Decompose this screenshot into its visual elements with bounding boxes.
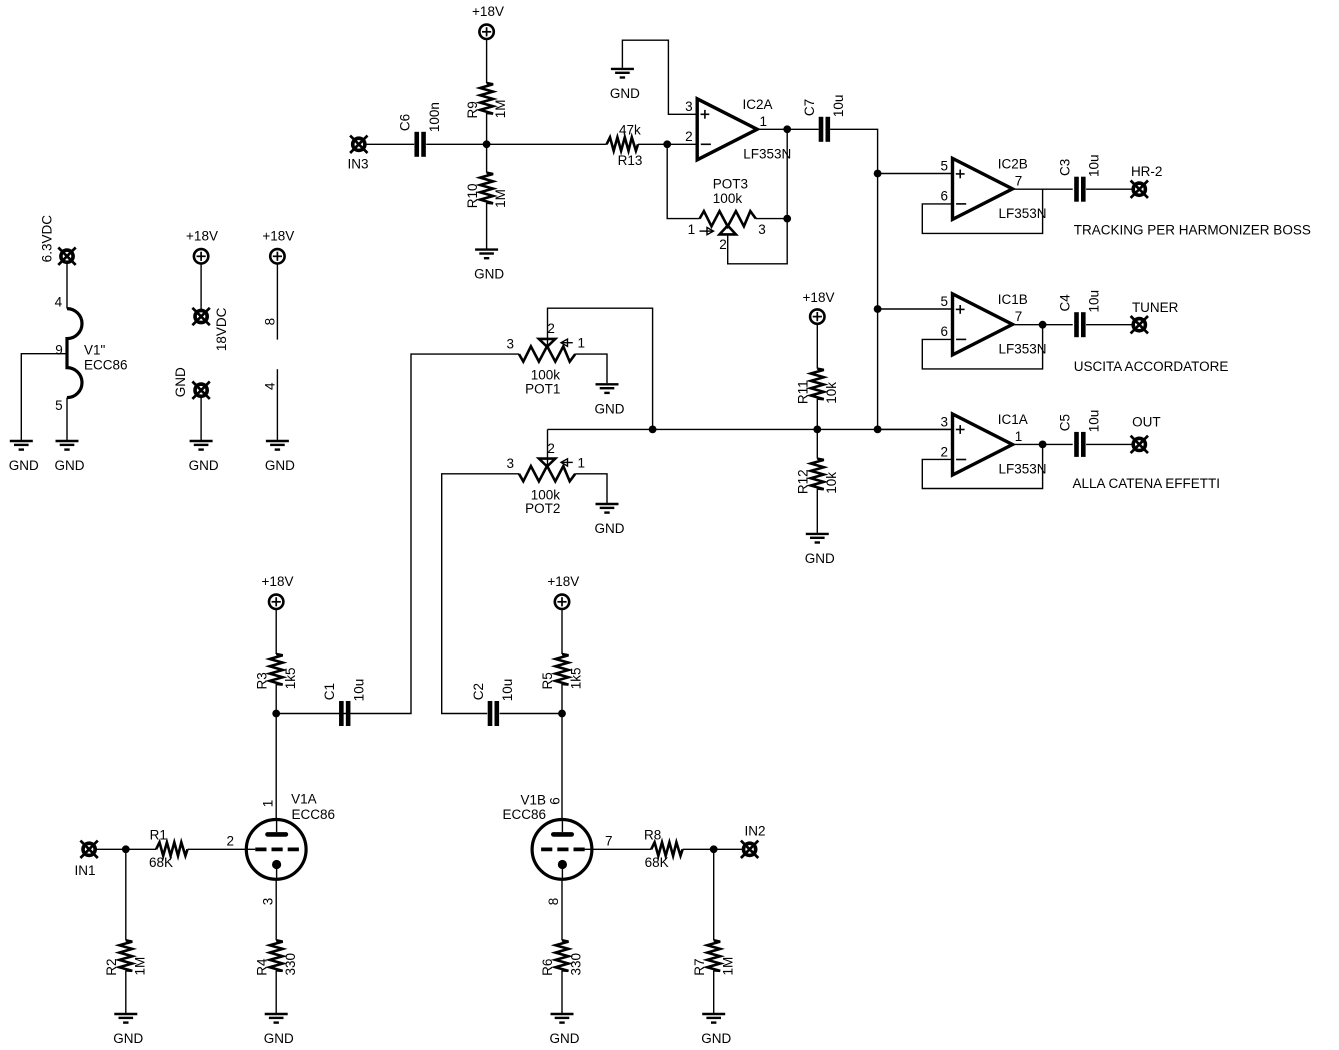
- svg-text:USCITA ACCORDATORE: USCITA ACCORDATORE: [1074, 359, 1229, 374]
- connector IN2: [741, 823, 766, 858]
- power +18V supply (op-amp pin 8 stub): [262, 228, 294, 263]
- pad 6.3VDC: [58, 248, 75, 265]
- svg-text:10u: 10u: [1087, 154, 1102, 177]
- svg-text:10u: 10u: [351, 679, 366, 702]
- wire V1B pin 8 cathode to R6: [561, 879, 563, 940]
- svg-text:1k5: 1k5: [569, 667, 584, 689]
- ground GND under R10: [474, 250, 504, 282]
- wire IN3 to C6: [366, 143, 415, 145]
- svg-text:1: 1: [260, 800, 275, 808]
- svg-text:330: 330: [569, 953, 584, 976]
- power +18V supply (top): [472, 4, 504, 39]
- svg-text:4: 4: [262, 382, 277, 390]
- junction R5/C2/V1B plate: [558, 710, 566, 718]
- wire bus R12 down: [816, 429, 818, 458]
- junction IC1A out/feedback: [1039, 441, 1047, 449]
- svg-text:GND: GND: [610, 86, 640, 101]
- connector +18V circle: [555, 595, 569, 609]
- wire 6.3VDC to heater pin 4: [66, 263, 68, 309]
- wire heater pin 9 to ground: [21, 354, 67, 440]
- svg-text:GND: GND: [55, 458, 85, 473]
- ground GND under POT2: [595, 504, 625, 536]
- wire IC2B output to C3: [1013, 188, 1073, 190]
- resistor R12 10k: [796, 459, 839, 495]
- svg-text:C5: C5: [1057, 414, 1072, 431]
- connector IN1: [74, 841, 97, 878]
- resistor R1 68K: [149, 828, 188, 870]
- wire R4 to ground: [275, 970, 277, 1013]
- connector +18V circle: [194, 249, 208, 263]
- connector 18VDC: [192, 307, 229, 351]
- wire +18V to R11: [816, 323, 818, 369]
- junction C7/IC1B branch: [874, 305, 882, 313]
- capacitor C5 10u: [1057, 410, 1101, 457]
- resistor R5 1k5: [540, 654, 583, 690]
- ground symbol: [610, 69, 640, 101]
- wire main bus: [548, 428, 953, 430]
- svg-text:GND: GND: [113, 1031, 143, 1046]
- wire R5 to plate node: [561, 684, 563, 714]
- wire bus to IC1B pin 5: [878, 308, 953, 310]
- svg-text:100k: 100k: [531, 487, 561, 502]
- svg-text:IC2A: IC2A: [743, 97, 773, 112]
- wire R10 to ground: [486, 203, 488, 249]
- svg-text:GND: GND: [595, 401, 625, 416]
- svg-text:R12: R12: [796, 469, 811, 494]
- svg-text:V1B: V1B: [520, 792, 546, 807]
- pad HR-2: [1131, 181, 1148, 198]
- ground GND under R2: [113, 1014, 143, 1046]
- wiper arrow: [561, 342, 573, 344]
- wire IC1A feedback pin2 to output: [922, 444, 1042, 488]
- svg-text:3: 3: [260, 898, 275, 906]
- connector +18V circle: [270, 249, 284, 263]
- svg-text:1M: 1M: [493, 189, 508, 208]
- svg-text:GND: GND: [474, 267, 504, 282]
- svg-text:V1": V1": [84, 342, 106, 357]
- resistor R2 1M: [104, 940, 147, 976]
- svg-text:330: 330: [283, 953, 298, 976]
- pad 18VDC: [192, 308, 209, 325]
- svg-text:ALLA CATENA EFFETTI: ALLA CATENA EFFETTI: [1073, 476, 1221, 491]
- wire R8 to IN2: [683, 848, 744, 850]
- power +18V supply (18VDC column): [186, 228, 218, 263]
- svg-text:1: 1: [578, 336, 586, 351]
- wire +18V to R9: [486, 38, 488, 83]
- connector GND pad: [173, 367, 210, 399]
- wiper arrow: [561, 461, 573, 463]
- wire IC1A output to C5: [1013, 443, 1073, 445]
- pad OUT: [1131, 436, 1148, 453]
- svg-text:LF353N: LF353N: [999, 206, 1047, 221]
- wire GND pad to ground: [200, 397, 202, 440]
- heater V1" ECC86 filament: [55, 295, 128, 413]
- wire IC2A output to C7: [757, 128, 819, 130]
- svg-text:6: 6: [940, 324, 948, 339]
- triode V1B ECC86: [532, 820, 592, 880]
- resistor R6 330: [540, 940, 583, 976]
- svg-text:1: 1: [760, 114, 768, 129]
- svg-text:3: 3: [506, 336, 514, 351]
- potentiometer POT2 100k: [506, 441, 585, 516]
- junction R3/C1/V1A plate: [272, 710, 280, 718]
- wire R9 to IN3 node: [486, 113, 488, 144]
- potentiometer POT1 100k: [506, 321, 585, 396]
- svg-text:R8: R8: [644, 828, 661, 843]
- wire V1B pin 7 grid to R8: [583, 848, 651, 850]
- svg-text:7: 7: [1015, 309, 1023, 324]
- wire POT2 wiper to bus: [547, 429, 549, 466]
- svg-text:3: 3: [685, 99, 693, 114]
- svg-text:6.3VDC: 6.3VDC: [40, 215, 55, 263]
- capacitor C2 10u: [471, 679, 515, 726]
- svg-text:C3: C3: [1057, 159, 1072, 176]
- connector +18V circle: [479, 25, 493, 39]
- wire C4 to TUNER: [1086, 324, 1133, 326]
- svg-text:3: 3: [506, 456, 514, 471]
- wire POT1 right end to ground: [575, 354, 607, 383]
- svg-text:+18V: +18V: [803, 290, 835, 305]
- connector +18V circle: [810, 309, 824, 323]
- svg-text:18VDC: 18VDC: [214, 307, 229, 351]
- svg-text:ECC86: ECC86: [292, 807, 336, 822]
- svg-text:GND: GND: [805, 551, 835, 566]
- pad IN1: [80, 841, 97, 858]
- svg-text:IN3: IN3: [347, 157, 368, 172]
- wire pin 4 stub to ground: [276, 369, 278, 440]
- svg-text:+18V: +18V: [262, 228, 294, 243]
- junction C7/main bus: [874, 426, 882, 434]
- svg-text:GND: GND: [550, 1031, 580, 1046]
- ground GND under R6: [550, 1014, 580, 1046]
- svg-text:TRACKING PER HARMONIZER BOSS: TRACKING PER HARMONIZER BOSS: [1074, 223, 1311, 238]
- wire R13 to IC2A pin 2: [638, 143, 697, 145]
- svg-text:47k: 47k: [619, 123, 641, 138]
- svg-text:1: 1: [688, 222, 696, 237]
- op-amp IC2A LF353N: [685, 97, 791, 161]
- svg-text:2: 2: [547, 441, 555, 456]
- capacitor C6 100n: [398, 102, 442, 157]
- svg-text:GND: GND: [265, 458, 295, 473]
- triode V1A ECC86: [246, 820, 306, 880]
- wire plate node to C1: [276, 713, 339, 715]
- svg-text:+18V: +18V: [186, 228, 218, 243]
- wire node to R13: [487, 143, 607, 145]
- resistor R13 47k: [607, 123, 643, 168]
- junction IN1/R1/R2: [122, 845, 130, 853]
- wire POT2 left to C2: [442, 474, 519, 714]
- ground GND at IC2A noninverting input: [610, 69, 640, 101]
- connector 6.3VDC: [40, 215, 76, 265]
- svg-text:1k5: 1k5: [283, 667, 298, 689]
- capacitor C7 10u: [802, 95, 846, 142]
- ground GND under R12: [805, 534, 835, 566]
- svg-text:1M: 1M: [132, 957, 147, 976]
- svg-text:TUNER: TUNER: [1132, 300, 1179, 315]
- svg-text:3: 3: [940, 414, 948, 429]
- wire +18V to R5: [561, 610, 563, 654]
- svg-text:2: 2: [719, 237, 727, 252]
- wire GND to IC2A pin 3: [622, 40, 697, 114]
- svg-text:68K: 68K: [149, 855, 173, 870]
- resistor R7 1M: [692, 940, 735, 976]
- pad TUNER: [1131, 316, 1148, 333]
- pad IN3: [350, 136, 367, 153]
- svg-text:C2: C2: [471, 683, 486, 700]
- ground GND under R4: [264, 1014, 294, 1046]
- svg-text:R11: R11: [796, 380, 811, 404]
- junction C7/IC2B branch: [874, 170, 882, 178]
- junction IC1B out/feedback: [1039, 321, 1047, 329]
- junction R8/R7/IN2: [710, 845, 718, 853]
- wire IN1 to R1: [96, 848, 156, 850]
- svg-text:R4: R4: [254, 958, 269, 976]
- wire IC2A pin2 node down to POT3: [667, 144, 699, 218]
- svg-text:R6: R6: [540, 959, 555, 976]
- wire POT3 wiper loop: [728, 219, 788, 264]
- svg-text:POT1: POT1: [525, 381, 560, 396]
- connector HR-2: [1131, 164, 1163, 198]
- svg-text:3: 3: [758, 222, 766, 237]
- capacitor C1 10u: [322, 679, 366, 726]
- svg-text:6: 6: [940, 189, 948, 204]
- svg-text:10u: 10u: [831, 95, 846, 118]
- svg-text:LF353N: LF353N: [999, 462, 1047, 477]
- connector TUNER: [1131, 300, 1179, 333]
- svg-text:5: 5: [940, 159, 948, 174]
- svg-text:10u: 10u: [1087, 290, 1102, 313]
- svg-text:GND: GND: [189, 458, 219, 473]
- ground GND op-amp pin 4: [265, 441, 295, 473]
- connector OUT: [1131, 415, 1161, 454]
- wire IC2B feedback pin6 to output: [922, 189, 1042, 233]
- svg-text:+18V: +18V: [472, 4, 504, 19]
- svg-text:6: 6: [548, 797, 563, 805]
- wire IC1B feedback pin6 to output: [922, 325, 1042, 369]
- wire C6 to node: [426, 143, 486, 145]
- svg-text:C4: C4: [1057, 294, 1072, 312]
- svg-text:9: 9: [55, 342, 63, 357]
- svg-text:+18V: +18V: [547, 574, 579, 589]
- junction R13/POT3/IC2A: [663, 140, 671, 148]
- svg-text:V1A: V1A: [291, 792, 317, 807]
- svg-text:5: 5: [55, 398, 63, 413]
- junction node IN3/R9/R10/R13: [483, 140, 491, 148]
- wire R7 to ground: [713, 970, 715, 1013]
- svg-text:10u: 10u: [500, 679, 515, 702]
- svg-text:IC1B: IC1B: [998, 292, 1028, 307]
- ground GND heater pin9: [9, 441, 39, 473]
- wire heater pin 5 to ground: [66, 398, 68, 440]
- svg-text:100n: 100n: [427, 102, 442, 132]
- wire POT1 wiper to bus: [548, 308, 653, 429]
- svg-text:POT2: POT2: [525, 501, 560, 516]
- svg-text:8: 8: [546, 898, 561, 906]
- svg-text:R2: R2: [104, 959, 119, 976]
- wire IC1B output to C4: [1013, 324, 1073, 326]
- svg-text:HR-2: HR-2: [1131, 164, 1163, 179]
- wire +18V to 18VDC pad: [200, 264, 202, 310]
- svg-text:IN2: IN2: [744, 823, 765, 838]
- resistor R9 1M: [465, 83, 508, 119]
- pad GND: [192, 382, 209, 399]
- wire C7 to right bus corner: [830, 129, 878, 429]
- ground GND under R7: [701, 1014, 731, 1046]
- junction IC2A out / POT3: [783, 125, 791, 133]
- resistor R8 68K: [644, 828, 683, 870]
- svg-text:ECC86: ECC86: [502, 807, 546, 822]
- power +18V supply (V1B plate): [547, 574, 579, 609]
- svg-text:R1: R1: [150, 828, 167, 843]
- svg-text:GND: GND: [595, 521, 625, 536]
- wire plate node down to V1A pin 1: [275, 714, 277, 820]
- svg-text:7: 7: [605, 834, 613, 849]
- capacitor C3 10u: [1057, 154, 1101, 201]
- wire R1 to V1A pin 2 grid: [188, 848, 256, 850]
- op-amp IC1B LF353N: [940, 292, 1046, 356]
- wire R2 to ground: [125, 970, 127, 1013]
- svg-text:R13: R13: [618, 153, 643, 168]
- svg-text:IC2B: IC2B: [998, 157, 1028, 172]
- wire R12 to ground: [816, 489, 818, 533]
- svg-text:GND: GND: [9, 458, 39, 473]
- resistor R3 1k5: [254, 654, 297, 690]
- potentiometer POT3 100k: [688, 176, 766, 252]
- svg-text:C7: C7: [802, 99, 817, 116]
- wire C5 to OUT: [1086, 443, 1133, 445]
- svg-text:OUT: OUT: [1132, 415, 1161, 430]
- wire C3 to HR-2: [1086, 188, 1133, 190]
- wire plate node down to V1B pin 6: [561, 714, 563, 820]
- junction R11/R12/bus: [813, 426, 821, 434]
- wire C2 to plate node: [500, 713, 562, 715]
- svg-text:R9: R9: [465, 101, 480, 118]
- svg-text:LF353N: LF353N: [999, 342, 1047, 357]
- svg-text:GND: GND: [701, 1031, 731, 1046]
- svg-text:IC1A: IC1A: [998, 412, 1028, 427]
- resistor R10 1M: [465, 173, 508, 209]
- svg-text:2: 2: [547, 321, 555, 336]
- svg-text:2: 2: [940, 444, 948, 459]
- svg-text:C1: C1: [322, 683, 337, 700]
- ground GND heater pin5: [55, 441, 85, 473]
- wire bus to IC2B pin 5: [878, 173, 953, 175]
- op-amp IC2B LF353N: [940, 157, 1046, 221]
- capacitor C4 10u: [1057, 290, 1101, 337]
- wire R10 from node: [486, 144, 488, 172]
- svg-text:+18V: +18V: [262, 574, 294, 589]
- svg-text:IN1: IN1: [74, 863, 95, 878]
- svg-text:GND: GND: [264, 1031, 294, 1046]
- connector IN3: [347, 136, 368, 172]
- svg-text:C6: C6: [398, 114, 413, 131]
- svg-text:2: 2: [226, 834, 234, 849]
- wire R6 to ground: [561, 970, 563, 1013]
- svg-text:LF353N: LF353N: [743, 146, 791, 161]
- pad IN2: [741, 841, 758, 858]
- power +18V supply (R11): [803, 290, 835, 324]
- svg-text:10k: 10k: [824, 382, 839, 404]
- wire bus to IC1A pin 3: [878, 428, 953, 430]
- junction POT1 loop/bus: [649, 426, 657, 434]
- wire +18V pin 8 stub: [276, 264, 278, 340]
- connector +18V circle: [269, 595, 283, 609]
- svg-text:1: 1: [578, 455, 586, 470]
- wire R3 to plate node: [275, 684, 277, 714]
- wire POT1 left to C1: [339, 354, 519, 713]
- wire IC2A out down to POT3 node: [786, 129, 788, 218]
- svg-text:8: 8: [262, 318, 277, 326]
- junction POT3 right/output node: [783, 215, 791, 223]
- svg-text:R10: R10: [465, 183, 480, 208]
- svg-text:1M: 1M: [493, 99, 508, 118]
- wire R2 from IN1 node: [125, 849, 127, 940]
- ground GND under POT1: [595, 384, 625, 416]
- svg-text:68K: 68K: [645, 855, 669, 870]
- svg-text:POT3: POT3: [713, 176, 748, 191]
- wire R7 from IN2 node: [713, 849, 715, 940]
- wire +18V to R3: [275, 610, 277, 654]
- svg-text:10u: 10u: [1087, 410, 1102, 433]
- resistor R11 10k: [796, 369, 839, 405]
- svg-text:5: 5: [940, 294, 948, 309]
- svg-text:4: 4: [55, 295, 63, 310]
- svg-text:10k: 10k: [824, 472, 839, 494]
- resistor R4 330: [254, 940, 297, 976]
- wire V1A pin 3 cathode to R4: [275, 879, 277, 940]
- svg-text:7: 7: [1015, 174, 1023, 189]
- svg-text:R5: R5: [540, 672, 555, 689]
- svg-text:1M: 1M: [720, 957, 735, 976]
- wire POT3 right end to node: [756, 218, 787, 220]
- power +18V supply (V1A plate): [262, 574, 294, 609]
- wire POT2 right end to ground: [575, 474, 607, 503]
- svg-text:R3: R3: [254, 672, 269, 689]
- svg-text:ECC86: ECC86: [84, 358, 128, 373]
- svg-text:100k: 100k: [531, 368, 561, 383]
- ground GND 18VDC column: [189, 441, 219, 473]
- svg-text:R7: R7: [692, 959, 707, 976]
- op-amp IC1A LF353N: [940, 412, 1046, 476]
- svg-text:GND: GND: [173, 367, 188, 397]
- svg-text:1: 1: [1015, 429, 1023, 444]
- svg-text:100k: 100k: [713, 191, 743, 206]
- svg-text:2: 2: [685, 129, 693, 144]
- wiper arrow: [700, 230, 714, 232]
- wire R11 to bus: [816, 399, 818, 430]
